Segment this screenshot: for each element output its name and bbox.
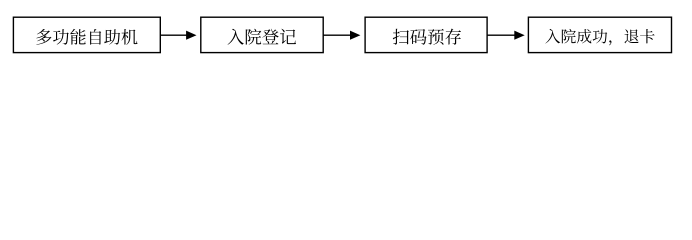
process box 1: 多功能自助机	[13, 17, 160, 52]
label text: 入院登记	[227, 29, 295, 45]
process box 3: 扫码预存	[365, 17, 487, 52]
arrow 2: flow connector	[323, 31, 360, 40]
process box 4: 入院成功，退卡	[528, 17, 671, 52]
arrow 1: flow connector	[161, 31, 197, 40]
label text: 扫码预存	[393, 29, 461, 45]
process box 2: 入院登记	[201, 17, 323, 52]
label text: 入院成功，退卡	[545, 29, 654, 45]
arrow 3: flow connector	[487, 31, 524, 40]
label text: 多功能自助机	[36, 29, 137, 45]
